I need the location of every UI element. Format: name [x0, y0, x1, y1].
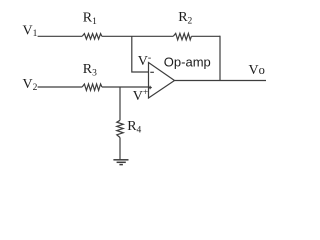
wire — [119, 87, 121, 120]
wire — [38, 86, 83, 88]
svg-text:R4: R4 — [127, 119, 141, 135]
resistor R3 — [82, 84, 102, 90]
svg-text:V+: V+ — [133, 88, 148, 104]
wire — [119, 138, 121, 160]
resistor R1 — [82, 34, 102, 40]
svg-text:Op-amp: Op-amp — [164, 54, 211, 69]
wire — [102, 86, 149, 88]
svg-text:R3: R3 — [83, 62, 97, 78]
op-amp U1 — [148, 63, 174, 99]
wire — [38, 35, 83, 37]
wire — [191, 35, 220, 37]
svg-text:V1: V1 — [23, 23, 38, 39]
wire — [175, 80, 267, 82]
svg-text:R2: R2 — [178, 10, 192, 26]
wire — [102, 35, 174, 37]
resistor R2 — [173, 33, 191, 39]
svg-text:R1: R1 — [83, 11, 97, 27]
resistor R4 — [117, 120, 123, 137]
svg-text:V-: V- — [138, 52, 151, 69]
wire — [132, 36, 149, 72]
svg-text:V2: V2 — [23, 77, 38, 93]
svg-text:Vo: Vo — [249, 63, 265, 78]
wire — [219, 36, 221, 81]
ground — [113, 160, 128, 165]
